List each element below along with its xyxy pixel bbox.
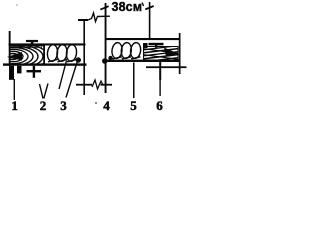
svg-text:4: 4 bbox=[103, 98, 110, 113]
springs right bbox=[111, 42, 141, 59]
bottom rail left bbox=[3, 63, 87, 65]
svg-text:5: 5 bbox=[130, 98, 137, 113]
leader 5 bbox=[133, 63, 135, 99]
pad block 2 under left rail bbox=[17, 66, 22, 74]
svg-text:38см: 38см bbox=[112, 0, 143, 14]
dimension extension right bbox=[149, 2, 151, 38]
junction dot on wall bbox=[102, 58, 108, 64]
wood block right (side grain) bbox=[142, 43, 181, 62]
scan speckles bbox=[16, 4, 18, 6]
apostrophe mark bbox=[142, 3, 144, 7]
bolt head on left top rail bbox=[26, 40, 38, 44]
extra slanted leader from spring bottom bbox=[59, 61, 67, 90]
dot at right end of left springs bbox=[76, 57, 81, 62]
bolt below left block bbox=[27, 66, 42, 78]
wood block left (end grain) bbox=[0, 43, 48, 71]
leader 3 (from spring dot down to number) bbox=[66, 62, 77, 98]
svg-text:3: 3 bbox=[60, 98, 67, 113]
springs left bbox=[47, 44, 78, 62]
top rail right bbox=[106, 38, 180, 40]
svg-text:6: 6 bbox=[156, 98, 163, 113]
svg-text:2: 2 bbox=[40, 98, 47, 113]
wall left vertical bbox=[83, 20, 85, 95]
svg-text:1: 1 bbox=[11, 98, 18, 113]
dot at left end of right springs bbox=[108, 56, 112, 60]
bolt stem below right block / leader 6 bbox=[159, 62, 161, 80]
bottom rail right bbox=[106, 60, 180, 62]
wall right vertical bbox=[105, 3, 107, 93]
top rail left bbox=[9, 43, 86, 45]
pad block 1 under left rail bbox=[9, 66, 14, 80]
right edge vertical bbox=[179, 33, 181, 74]
leader 1 bbox=[14, 79, 15, 100]
dimension tick left bbox=[100, 5, 109, 10]
left wall edge vertical bbox=[9, 31, 11, 66]
bottom break bbox=[76, 80, 112, 89]
top break line bbox=[78, 13, 110, 22]
leader 2 bbox=[40, 84, 44, 99]
long line under right block bbox=[146, 66, 187, 68]
dimension tick right bbox=[145, 5, 154, 10]
bolt above right block bbox=[149, 43, 164, 48]
